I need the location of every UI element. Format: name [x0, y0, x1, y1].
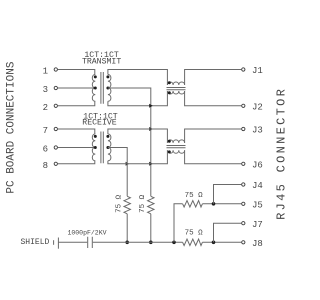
svg-text:J3: J3: [252, 126, 263, 136]
svg-text:SHIELD: SHIELD: [20, 238, 49, 247]
wire R3 to node J4/J5: [202, 203, 241, 205]
svg-text:J6: J6: [252, 160, 263, 170]
J5 terminal: [242, 202, 245, 205]
junction dot R2/shield: [149, 241, 153, 245]
transformer T1 phase dot left top: [94, 75, 97, 78]
svg-text:7: 7: [43, 126, 48, 136]
svg-text:RECEIVE: RECEIVE: [82, 118, 116, 127]
svg-text:75 Ω: 75 Ω: [139, 194, 147, 213]
choke L1 bottom winding: [167, 91, 184, 94]
svg-text:1: 1: [43, 67, 48, 77]
wire choke L2 top to J3: [185, 129, 242, 143]
choke L2 top winding: [167, 140, 184, 143]
J8 terminal: [242, 241, 245, 244]
svg-text:75 Ω: 75 Ω: [115, 194, 123, 213]
pin 7 terminal: [54, 127, 57, 130]
J1 terminal: [242, 68, 245, 71]
junction dot R3 branch/shield: [172, 241, 176, 245]
wire node up to J4: [214, 185, 242, 204]
pin 1 terminal: [54, 68, 57, 71]
transformer T2 phase dot right top: [106, 135, 109, 138]
resistor R1 75 ohm (vertical): [124, 196, 130, 214]
capacitor C1 plates: [88, 237, 93, 248]
wire pin7 to T2: [58, 129, 95, 134]
svg-text:TRANSMIT: TRANSMIT: [82, 57, 121, 66]
choke L2 bottom winding: [167, 150, 184, 153]
wire pin1 to T1: [58, 70, 95, 75]
transformer T1 core: [101, 72, 103, 104]
choke L1 top winding: [167, 82, 184, 85]
J4 terminal: [242, 183, 245, 186]
transformer T1 center-tap dot left: [94, 87, 97, 90]
svg-text:RJ45 CONNECTOR: RJ45 CONNECTOR: [275, 87, 289, 220]
choke L1 phase dot bottom: [168, 91, 171, 94]
junction dot J4/J5 node: [212, 202, 216, 206]
pin 3 terminal: [54, 86, 57, 89]
wire R4 to J8: [202, 241, 241, 243]
wire choke L1 top to J1: [185, 70, 242, 86]
wire choke L2 bottom to J6: [185, 150, 242, 164]
crossing node on RX top line: [149, 127, 153, 131]
crossing node on RX bottom line at R2: [149, 162, 153, 166]
wire shield to capacitor C1: [58, 241, 87, 243]
choke L2 core: [167, 146, 186, 148]
wire pin6 to T2 center tap: [58, 147, 95, 149]
wire R2 to shield line: [150, 214, 152, 243]
junction dot J7/J8 node: [212, 241, 216, 245]
wire R3 branch up from shield: [174, 204, 183, 243]
wire T1 top to choke L1 top-left: [108, 70, 167, 86]
svg-text:6: 6: [43, 145, 48, 155]
crossing node on RX bottom line at R1: [126, 162, 130, 166]
transformer T1 center-tap dot right: [106, 87, 109, 90]
transformer T2 center-tap dot left: [94, 146, 97, 149]
wire T2 top to choke L2 top-left: [108, 129, 167, 143]
wire pin2 to T1: [58, 101, 95, 106]
wire pin3 to T1 center tap: [58, 87, 95, 89]
transformer T2 center-tap dot right: [106, 146, 109, 149]
resistor R4 75 ohm (horizontal, on shield line): [183, 239, 203, 245]
svg-text:PC BOARD CONNECTIONS: PC BOARD CONNECTIONS: [6, 61, 18, 193]
pin 6 terminal: [54, 146, 57, 149]
transformer T1 (transmit) left winding: [92, 75, 95, 102]
transformer T1 right winding: [108, 75, 111, 102]
choke L2 phase dot top: [168, 140, 171, 143]
wire node up to J7: [214, 223, 242, 242]
svg-text:1000pF/2KV: 1000pF/2KV: [67, 229, 106, 236]
shield terminal bars: [53, 240, 55, 245]
wire T2 bottom to choke L2 bottom-left: [108, 150, 167, 164]
wire T1 bottom to node A and choke L1 bottom-left: [108, 91, 167, 106]
J7 terminal: [242, 222, 245, 225]
junction dot R1/shield: [125, 241, 129, 245]
crossing node on TX bottom line: [149, 104, 153, 108]
wire R1 to shield line: [126, 214, 128, 243]
pin 2 terminal: [54, 104, 57, 107]
choke L1 core: [167, 88, 186, 90]
svg-text:J1: J1: [252, 66, 263, 76]
shield line wire to R4: [93, 241, 183, 243]
transformer T1 phase dot right top: [106, 75, 109, 78]
wire choke L1 bottom to J2: [185, 91, 242, 106]
svg-text:J5: J5: [252, 200, 263, 210]
transformer T2 phase dot left top: [94, 135, 97, 138]
wire pin8 to T2: [58, 161, 95, 164]
svg-text:J8: J8: [252, 239, 263, 249]
transformer T2 (receive) left winding: [92, 134, 95, 161]
choke L1 phase dot top: [168, 81, 171, 84]
J3 terminal: [242, 127, 245, 130]
wire T1 right center tap down to R2: [108, 88, 151, 196]
svg-text:J2: J2: [252, 102, 263, 112]
svg-text:75 Ω: 75 Ω: [185, 192, 204, 200]
wire T2 right center tap down to R1: [108, 148, 127, 197]
svg-text:J7: J7: [252, 220, 263, 230]
svg-text:3: 3: [43, 85, 48, 95]
pin 8 terminal: [54, 162, 57, 165]
svg-text:75 Ω: 75 Ω: [185, 230, 204, 238]
resistor R2 75 ohm (vertical): [148, 196, 154, 214]
J2 terminal: [242, 104, 245, 107]
resistor R3 75 ohm (horizontal): [183, 201, 203, 207]
svg-text:J4: J4: [252, 181, 263, 191]
choke L2 phase dot bottom: [168, 150, 171, 153]
J6 terminal: [242, 162, 245, 165]
transformer T2 core: [101, 132, 103, 164]
svg-text:8: 8: [43, 161, 48, 171]
transformer T2 right winding: [108, 134, 111, 161]
svg-text:2: 2: [43, 103, 48, 113]
